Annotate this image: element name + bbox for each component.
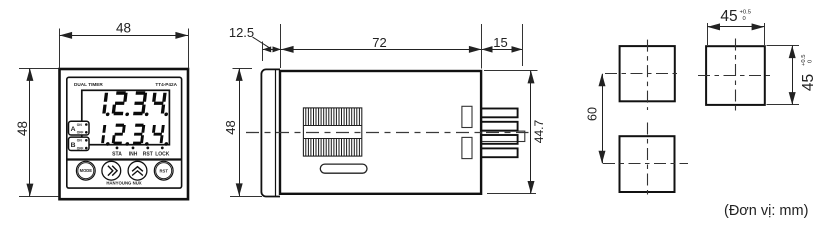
svg-text:OFF: OFF [77,131,84,135]
svg-text:60: 60 [586,107,600,121]
status dots row [116,147,119,150]
dimension 45 top: extension lines [707,23,709,45]
7-segment digit row 2 "1.2.3.4." [101,124,171,146]
svg-text:TT4-P42A: TT4-P42A [155,82,177,87]
center locating pin [481,131,525,141]
svg-text:ON: ON [77,139,83,143]
svg-text:RST: RST [143,152,153,158]
svg-text:(Đơn vị: mm): (Đơn vị: mm) [724,203,808,219]
svg-text:44.7: 44.7 [532,119,546,143]
svg-text:+0.5: +0.5 [801,55,807,66]
svg-text:ON: ON [77,123,83,127]
svg-text:INH: INH [129,152,138,158]
svg-text:12.5: 12.5 [229,25,254,40]
button up [128,161,147,180]
dimension 48 top: extension lines [59,29,61,69]
dimension 45 right: dimension line [792,46,794,105]
vent grille hatch lines [306,108,360,156]
oval slot [320,164,367,173]
cutout square lower-left [620,136,675,192]
svg-text:RST: RST [160,168,169,173]
cutout square upper-left [620,46,675,101]
dimension 48 top: dimension line [60,35,189,37]
svg-text:MODE: MODE [80,168,93,173]
svg-text:STA: STA [112,152,122,158]
dimension 48 left: extension lines [19,68,59,70]
terminal pin 3 [481,135,517,144]
svg-text:0: 0 [808,60,814,63]
crosshair right square [698,75,773,77]
side view: body outline [280,71,481,194]
svg-text:0: 0 [743,16,746,22]
dimension 15: right extension line [522,24,524,66]
dimension 45 right: extension lines [767,45,800,47]
terminal pin 4 [481,148,517,157]
svg-text:48: 48 [116,20,131,35]
dimension 44.7: dimension line [530,71,532,194]
bezel inner edge line [275,69,277,196]
vent grille block [303,108,361,156]
svg-text:48: 48 [15,121,30,136]
svg-text:72: 72 [372,35,386,50]
dimension 12.5: extension lines [262,42,264,62]
crosshair upper-left square [605,73,681,75]
svg-text:OFF: OFF [77,146,84,150]
svg-text:B: B [71,142,76,149]
front view: timer outer frame [60,69,189,199]
dimension 48 side: dimension line [239,68,241,196]
latch window lower [462,137,472,158]
side view: front bezel [261,69,280,196]
svg-text:45: 45 [800,74,817,91]
dimension 12.5: dimension line and arrows [263,49,281,51]
svg-text:+0.5: +0.5 [740,9,751,15]
dimension 72: right extension line [481,24,483,69]
button fast-forward [102,161,121,180]
dimension 15: dimension line [482,49,523,51]
svg-text:45: 45 [720,8,737,25]
dimension 72: dimension line [281,49,482,51]
terminal pin 2 [481,122,517,131]
svg-text:48: 48 [223,120,238,134]
cutout square right [706,46,765,105]
front view: inner bezel frame [67,77,182,188]
svg-text:A: A [71,126,76,133]
svg-text:DUAL TIMER: DUAL TIMER [74,82,103,87]
dimension 45 top: dimension line [707,26,764,28]
indicator box B [69,137,90,150]
button MODE [76,161,95,180]
display window [82,90,170,144]
separator line [67,158,182,160]
crosshair lower-left square [603,163,688,165]
dimension 12.5: leader [253,37,272,49]
button RST [154,161,173,180]
dimension 44.7: extension lines [484,70,538,72]
latch window upper [462,106,472,127]
svg-text:15: 15 [493,35,507,50]
7-segment digit row 1 "1.2.3.4." [102,91,171,116]
dimension 60: dimension line [602,74,604,164]
center line (dash-dot) [246,132,529,134]
svg-text:LOCK: LOCK [155,152,170,158]
vent grille mid band [303,125,361,127]
terminal pin 1 [481,109,517,118]
svg-text:HANYOUNG NUX: HANYOUNG NUX [106,180,141,185]
dimension 48 side: extension lines [233,68,253,70]
dimension 48 left: dimension line [29,68,31,196]
indicator box A [69,121,90,135]
